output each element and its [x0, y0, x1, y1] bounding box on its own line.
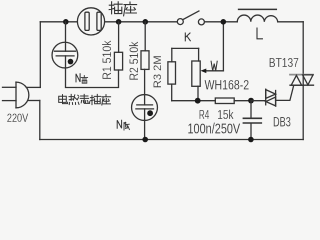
- svg-text:15k: 15k: [217, 107, 234, 122]
- wire top rail segment socket to K: [105, 21, 177, 23]
- label K: [185, 33, 190, 41]
- wire N-high lower to U bottom: [66, 56, 119, 88]
- switch K: [177, 11, 204, 25]
- wire N-high branch upper: [65, 22, 67, 51]
- diac DB3: [266, 89, 276, 106]
- node junction dot capacitor top: [248, 98, 254, 104]
- resistor R3 2M: [168, 48, 176, 100]
- wire N-low to bottom rail: [144, 109, 146, 140]
- resistor R2 510k: [141, 22, 149, 105]
- wire diac to triac gate: [276, 85, 294, 100]
- potentiometer W WH168-2: [192, 48, 200, 100]
- wire top rail segment L to right corner: [278, 21, 304, 23]
- resistor R4 15k: [215, 98, 234, 104]
- node junction dot W bottom: [195, 98, 201, 104]
- label N低: [117, 120, 129, 130]
- wire R4 to capacitor node: [234, 100, 251, 102]
- wire bottom rail: [40, 139, 303, 141]
- label 电热毯插座 (drawn glyphs): [59, 94, 111, 105]
- wire right vertical: [302, 22, 304, 140]
- label W: [211, 61, 217, 71]
- wire block top R3 to W: [172, 47, 199, 49]
- wire plug bottom lead: [28, 100, 40, 102]
- wire top rail segment K to L: [205, 21, 238, 23]
- gas dot of N-low: [147, 110, 153, 116]
- svg-text:DB3: DB3: [273, 115, 291, 130]
- svg-text:BT137: BT137: [269, 55, 299, 70]
- svg-text:100n/250V: 100n/250V: [188, 121, 241, 138]
- node junction dot R1 on top rail: [116, 19, 122, 25]
- label 插座 (drawn glyphs): [109, 2, 136, 16]
- capacitor C 100n/250V: [243, 101, 261, 140]
- label N高: [76, 74, 88, 83]
- triac BT137: [290, 75, 314, 86]
- node junction dot N-low bottom rail: [142, 137, 148, 143]
- svg-text:WH168-2: WH168-2: [205, 77, 250, 92]
- resistor R1 510k: [114, 22, 122, 70]
- wiper of potentiometer W: [201, 22, 224, 73]
- socket circle 插座: [77, 8, 104, 35]
- svg-text:220V: 220V: [7, 113, 29, 125]
- svg-text:R2 510k: R2 510k: [127, 41, 141, 81]
- node junction dot N-high branch on top rail: [63, 19, 69, 25]
- neon lamp N-high: [52, 42, 78, 68]
- wire bottom mid left of R4: [172, 100, 216, 102]
- wire left vertical upper: [39, 22, 41, 88]
- node junction dot wiper on top rail: [221, 19, 227, 25]
- node junction dot R2 on top rail: [143, 19, 149, 25]
- plug P 220V: [3, 82, 29, 108]
- label L: [257, 28, 262, 39]
- wire capacitor node to diac: [251, 100, 266, 102]
- gas dot of N-high: [68, 59, 74, 65]
- wire left vertical lower: [39, 101, 41, 140]
- node junction dot capacitor bottom rail: [248, 137, 254, 143]
- inductor L: [237, 9, 277, 21]
- wire top rail left segment: [40, 21, 77, 23]
- svg-text:R3 2M: R3 2M: [152, 55, 164, 88]
- neon lamp N-low: [132, 95, 158, 121]
- svg-text:R4: R4: [199, 107, 209, 122]
- wire plug top lead: [26, 86, 40, 88]
- svg-text:R1 510k: R1 510k: [100, 40, 114, 80]
